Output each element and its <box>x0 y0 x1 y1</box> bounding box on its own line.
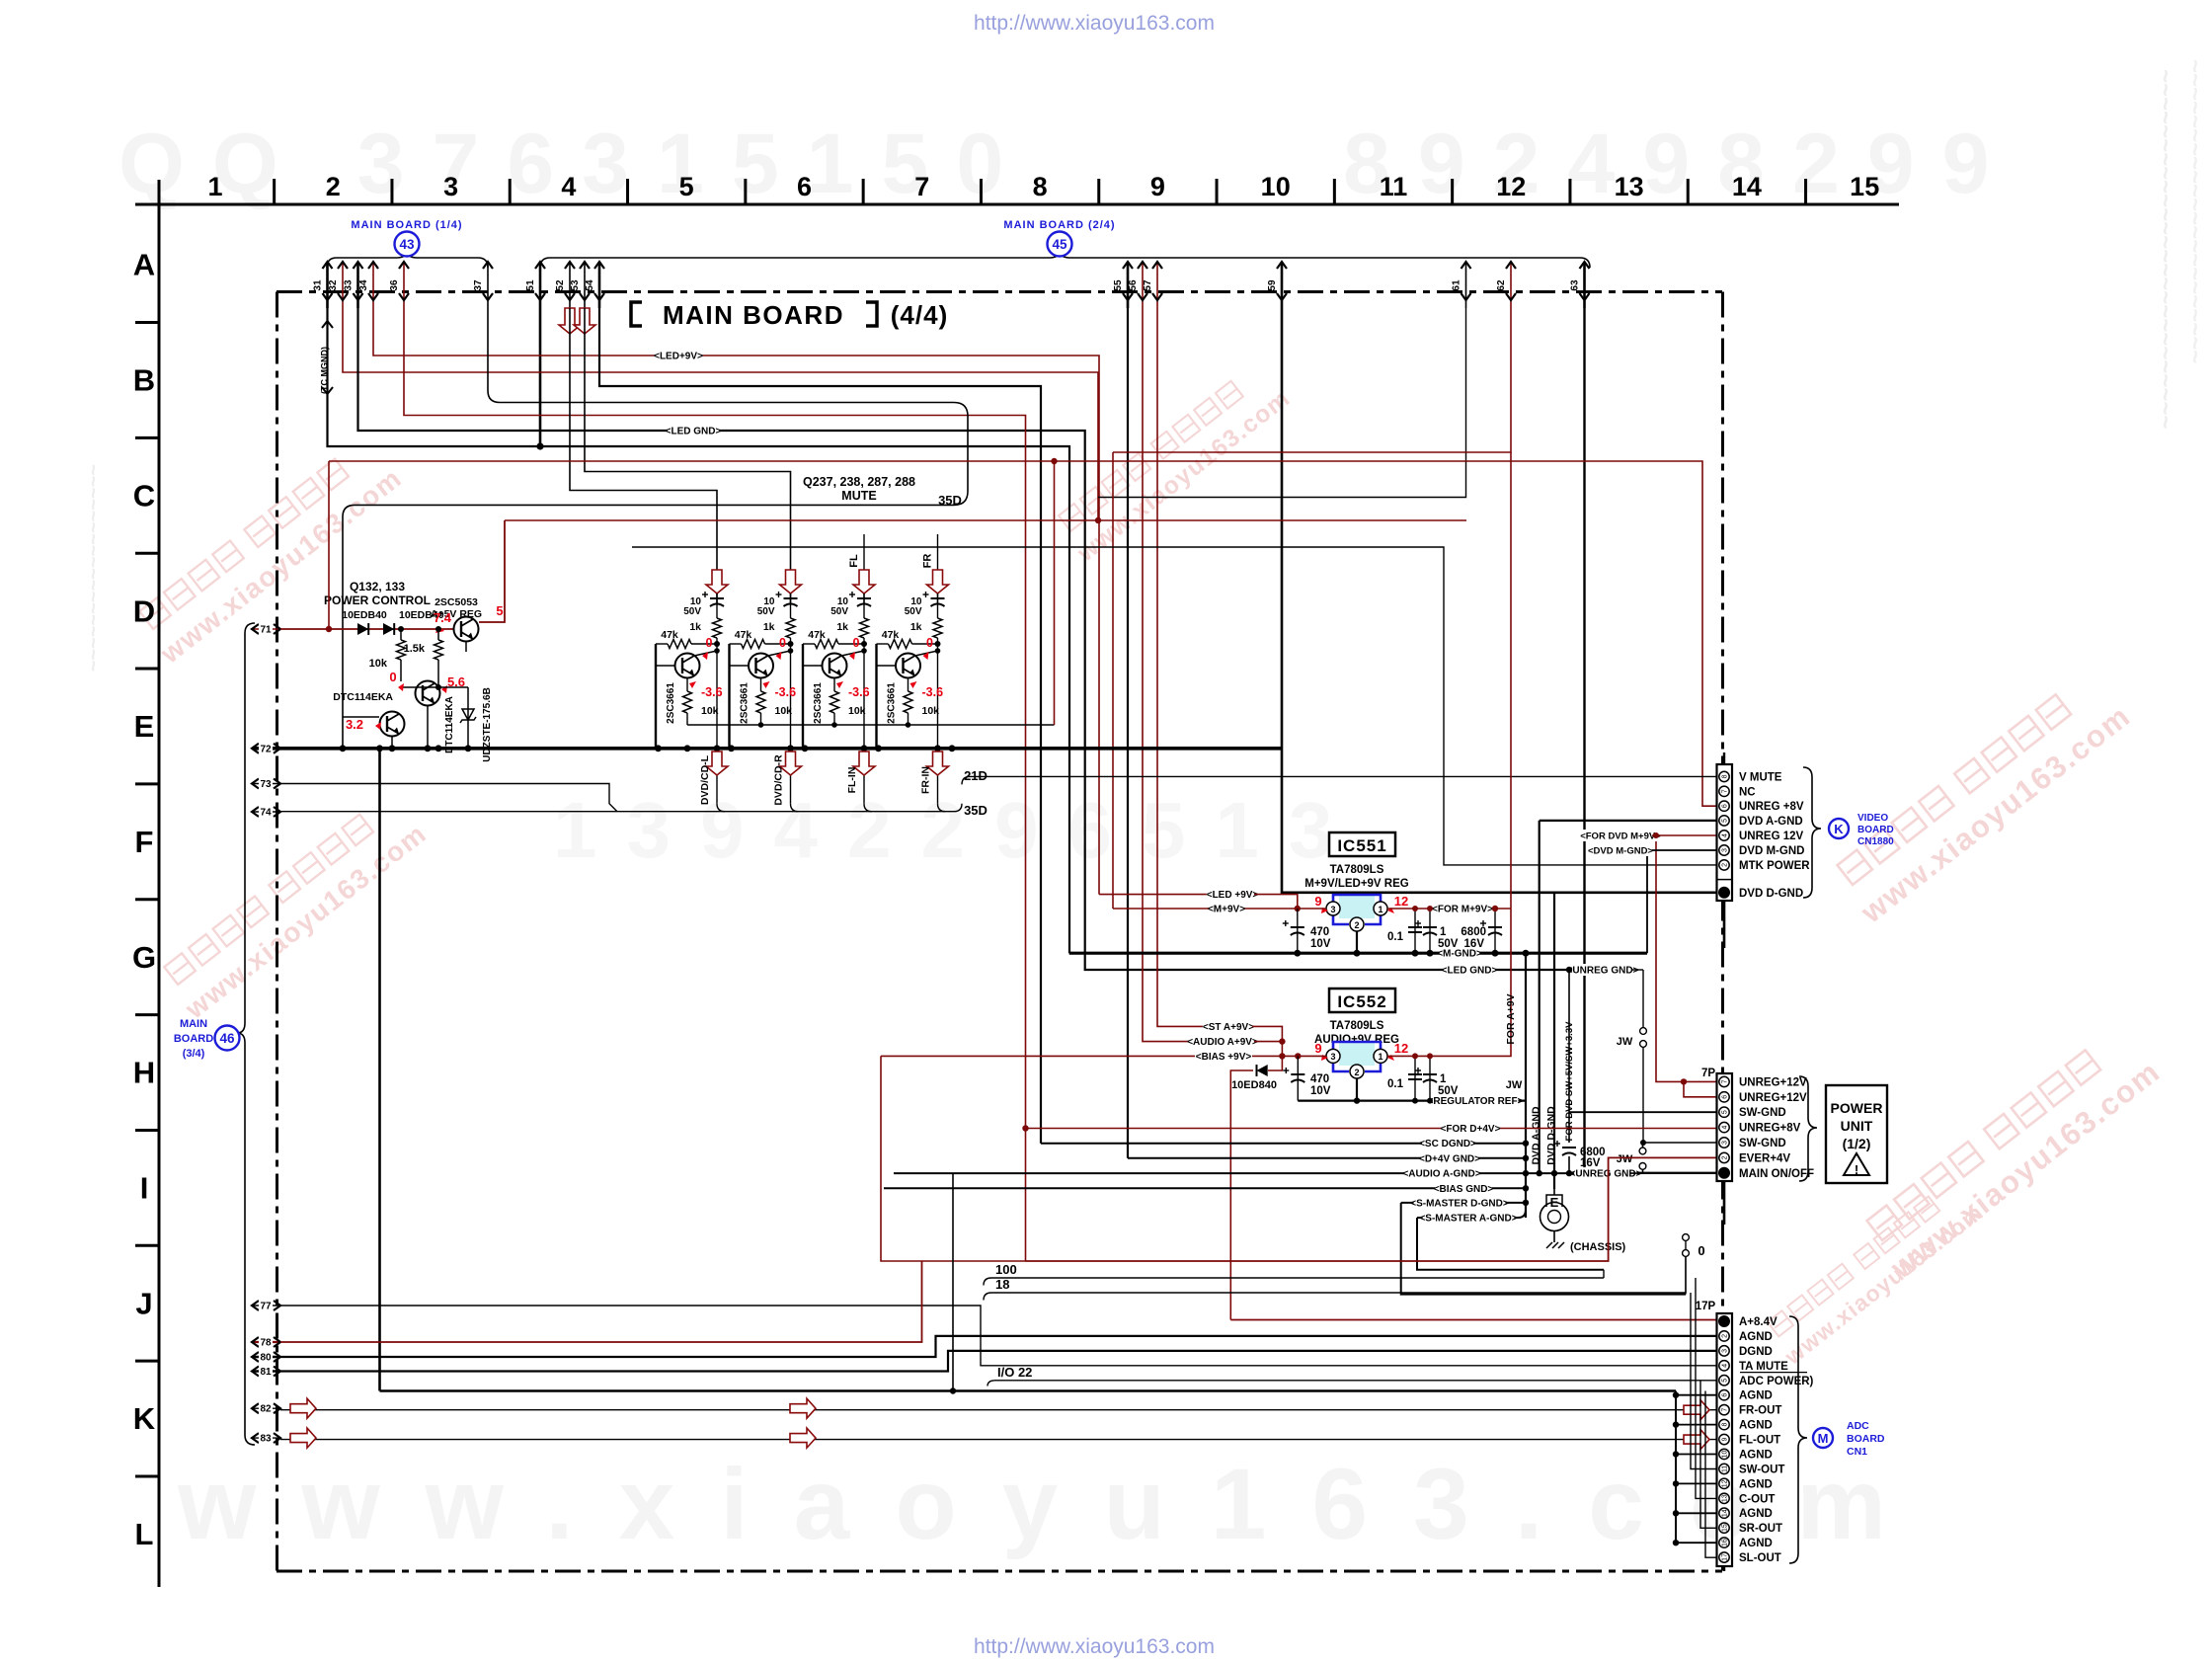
svg-text:2: 2 <box>1722 1155 1729 1159</box>
wire DVD M-GND <box>1646 850 1648 953</box>
svg-text:TA7809LS: TA7809LS <box>1330 864 1384 876</box>
svg-text:E: E <box>134 709 155 744</box>
svg-text:JW: JW <box>1506 1079 1523 1091</box>
svg-text:7P: 7P <box>1701 1068 1715 1079</box>
svg-text:<SC DGND>: <SC DGND> <box>1419 1139 1476 1149</box>
pin 71 left <box>253 628 280 630</box>
svg-text:0: 0 <box>853 636 860 650</box>
wire I/O 22 ADC POWER <box>987 1381 1717 1386</box>
svg-text:~~~~~~~~~~~~~~~~~~~~~~: ~~~~~~~~~~~~~~~~~~~~~~ <box>2181 59 2208 363</box>
red arrow top DVD/CD-L <box>706 570 728 594</box>
svg-text:10k: 10k <box>922 705 940 717</box>
wire pin53 to mute2 <box>585 308 791 603</box>
svg-text:3: 3 <box>1330 1052 1335 1062</box>
wire FOR D+4V red <box>1026 1128 1717 1130</box>
junction M+9V <box>1295 906 1301 911</box>
wire FOR M+9V <box>1387 908 1511 910</box>
svg-text:FR-OUT: FR-OUT <box>1739 1405 1781 1417</box>
svg-text:1.5k: 1.5k <box>404 643 426 655</box>
svg-text:470: 470 <box>1310 926 1329 938</box>
pin 53 top <box>584 263 586 308</box>
svg-text:FL-OUT: FL-OUT <box>1739 1435 1780 1447</box>
board border left dash-dot <box>276 292 278 1572</box>
watermark pink diagonal left lower <box>164 815 373 985</box>
svg-text:<ST A+9V>: <ST A+9V> <box>1203 1022 1254 1033</box>
svg-text:50V: 50V <box>905 606 922 617</box>
junction 1112 on 527 <box>1095 517 1101 523</box>
svg-text:14: 14 <box>1722 1509 1729 1517</box>
sheet circle 43 <box>395 232 420 257</box>
pin 51 top <box>539 263 542 308</box>
wire red bias drop 892 <box>881 1056 1026 1261</box>
svg-text:5: 5 <box>1722 1379 1729 1383</box>
svg-text:32: 32 <box>328 279 339 291</box>
svg-text:8: 8 <box>1033 172 1048 201</box>
wire AGND chain vertical <box>1675 1391 1677 1544</box>
svg-text:50V: 50V <box>683 606 701 617</box>
net label LED +9V <box>1099 894 1254 896</box>
svg-text:L: L <box>135 1517 154 1551</box>
svg-text:NC: NC <box>1739 786 1756 798</box>
svg-text:UNIT: UNIT <box>1841 1118 1873 1134</box>
svg-text:6: 6 <box>1722 1393 1729 1397</box>
brace power unit <box>1799 1076 1817 1181</box>
net label BIAS +9V <box>881 1055 1326 1057</box>
wire FL-OUT <box>280 1439 1717 1441</box>
red arrow top DVD/CD-R <box>780 570 802 594</box>
svg-text:1: 1 <box>1378 1052 1382 1062</box>
resistor 47k DVD/CD-R <box>730 643 742 645</box>
svg-text:MUTE: MUTE <box>841 489 876 503</box>
mute base bus <box>687 724 1055 726</box>
wire pin33 LED GND run <box>358 308 1632 970</box>
svg-text:AGND: AGND <box>1739 1390 1773 1402</box>
svg-text:MAIN: MAIN <box>180 1018 207 1030</box>
wire C-OUT feed <box>1696 1278 1717 1498</box>
jumper 0 chain <box>1685 1233 1687 1293</box>
resistor 47k FR-IN <box>877 643 889 645</box>
svg-text:IC552: IC552 <box>1337 992 1386 1011</box>
svg-text:80: 80 <box>260 1353 272 1364</box>
svg-text:47k: 47k <box>882 629 900 641</box>
transistor 2SC3661 DVD/CD-L <box>675 654 700 678</box>
svg-text:7: 7 <box>1722 1408 1729 1412</box>
pin 52 top <box>569 263 571 308</box>
svg-text:10V: 10V <box>1310 938 1331 950</box>
sheet circle 46 <box>215 1026 240 1051</box>
svg-text:MAIN BOARD: MAIN BOARD <box>663 300 844 330</box>
wire 78 red A+8.4V riser <box>280 1261 922 1342</box>
IC551 pin2 ground <box>1356 931 1358 953</box>
svg-text:47k: 47k <box>735 629 752 641</box>
svg-text:1: 1 <box>1378 905 1382 914</box>
red arrow FL-OUT left <box>290 1428 316 1448</box>
pin 61 top <box>1465 263 1467 308</box>
svg-text:13: 13 <box>1722 1494 1729 1502</box>
pin 63 top <box>1583 263 1586 308</box>
svg-text:B: B <box>133 363 155 398</box>
svg-text:DTC114EKA: DTC114EKA <box>444 696 455 753</box>
svg-text:POWER CONTROL: POWER CONTROL <box>324 594 431 607</box>
svg-text:DTC114EKA: DTC114EKA <box>333 691 393 703</box>
svg-text:-3.6: -3.6 <box>701 685 723 699</box>
sheet circle K video board <box>1829 819 1849 838</box>
junction base 2SC5053 <box>435 626 441 632</box>
diode D1 10EDB40 <box>357 623 368 635</box>
wire pin62 red to M+9V riser <box>1113 308 1511 452</box>
left rail FL-IN <box>802 644 804 749</box>
svg-text:4: 4 <box>1722 833 1729 837</box>
svg-text:82: 82 <box>260 1404 272 1415</box>
svg-text:UNREG+12V: UNREG+12V <box>1739 1076 1807 1088</box>
svg-text:0: 0 <box>706 636 713 650</box>
svg-text:9: 9 <box>1722 1437 1729 1441</box>
wire EVER+4V red <box>1026 1157 1720 1261</box>
red arrow FR-OUT left <box>290 1398 316 1418</box>
svg-text:UNREG+8V: UNREG+8V <box>1739 1123 1801 1135</box>
svg-text:21D: 21D <box>964 768 987 783</box>
svg-text:892498299: 892498299 <box>1343 117 2016 211</box>
svg-text:8: 8 <box>1722 774 1729 778</box>
net label UNREG GND row G <box>1571 964 1634 976</box>
svg-text:0.1: 0.1 <box>1387 1078 1404 1090</box>
diode D2 10EDB40 <box>383 623 394 635</box>
wire UNREG+12V red <box>1656 835 1719 1081</box>
wire node 5.6 cross <box>401 686 468 688</box>
svg-text:5: 5 <box>1722 819 1729 823</box>
capacitor 470/10V IC552 <box>1297 1056 1299 1100</box>
svg-text:http://www.xiaoyu163.com: http://www.xiaoyu163.com <box>974 12 1215 35</box>
chassis ground symbol E <box>1553 1189 1555 1195</box>
svg-text:JW: JW <box>1617 1153 1633 1165</box>
svg-text:http://www.xiaoyu163.com: http://www.xiaoyu163.com <box>974 1635 1215 1658</box>
svg-text:<S-MASTER D-GND>: <S-MASTER D-GND> <box>1410 1198 1509 1209</box>
red arrow bottom FL-IN <box>863 749 865 804</box>
svg-text:2: 2 <box>1354 920 1359 930</box>
svg-text:12: 12 <box>1394 1041 1408 1056</box>
svg-text:7: 7 <box>1722 789 1729 793</box>
net label LED GND right <box>1444 964 1495 976</box>
svg-text:4: 4 <box>1722 1126 1729 1130</box>
mute circuit Q2 (DVD/CD-R) <box>730 570 802 812</box>
wire pin63 to MAIN ON/OFF <box>1585 308 1717 1173</box>
svg-text:D: D <box>133 594 155 628</box>
svg-text:<DVD M-GND>: <DVD M-GND> <box>1588 846 1653 857</box>
wire SW-OUT feed <box>1691 1293 1717 1469</box>
svg-text:DVD D-GND: DVD D-GND <box>1739 888 1803 900</box>
bus M-GND <box>1069 952 1647 955</box>
svg-text:!: ! <box>1855 1162 1858 1177</box>
red arrow FR-OUT right <box>1684 1400 1709 1420</box>
svg-text:6: 6 <box>1722 804 1729 808</box>
pin 83 left <box>253 1437 280 1439</box>
svg-text:ADC: ADC <box>1847 1420 1869 1432</box>
svg-text:10k: 10k <box>701 705 719 717</box>
svg-text:2: 2 <box>1354 1068 1359 1077</box>
wire BIAS GND <box>884 1187 1526 1189</box>
svg-text:1k: 1k <box>836 621 848 633</box>
wire UNREG GND to 982 line <box>1631 969 1643 971</box>
jumper JW right <box>1642 970 1644 1027</box>
svg-text:14: 14 <box>1732 172 1762 201</box>
svg-text:74: 74 <box>260 808 272 819</box>
svg-text:UDZSTE-175.6B: UDZSTE-175.6B <box>482 687 493 762</box>
svg-text:62: 62 <box>1496 279 1507 291</box>
svg-text:1k: 1k <box>763 621 775 633</box>
wire emitter drops <box>427 706 429 749</box>
watermark pink diagonal bottom right <box>1768 1196 1939 1336</box>
wire base feed lower <box>343 716 379 718</box>
svg-text:1: 1 <box>1440 1073 1447 1085</box>
wire 21D to V MUTE <box>962 776 1717 784</box>
svg-text:10V: 10V <box>1310 1085 1331 1097</box>
svg-text:7.4: 7.4 <box>434 610 452 625</box>
svg-text:6: 6 <box>797 172 812 201</box>
capacitor 470/10V IC551 <box>1297 909 1299 953</box>
board border top dash-dot <box>276 290 1722 293</box>
svg-text:<AUDIO A-GND>: <AUDIO A-GND> <box>1402 1169 1480 1180</box>
bus 72 row E thick <box>280 747 1282 751</box>
wire M+9V riser x1127 <box>1112 452 1114 909</box>
svg-text:10: 10 <box>1722 1450 1729 1458</box>
svg-text:8: 8 <box>1722 1423 1729 1427</box>
IC551 pin2 <box>1350 917 1364 931</box>
ruler top line <box>135 203 1899 206</box>
svg-text:3: 3 <box>1722 848 1729 852</box>
svg-text:10k: 10k <box>848 705 866 717</box>
svg-text:83: 83 <box>260 1434 272 1445</box>
wire A+8.4V red <box>1230 1319 1716 1321</box>
svg-text:0: 0 <box>779 636 786 650</box>
IC551 pin1 <box>1374 902 1387 915</box>
svg-text:<AUDIO A+9V>: <AUDIO A+9V> <box>1187 1037 1258 1048</box>
wire SW-GND 1 power <box>1569 1111 1719 1113</box>
svg-text:I/O 22: I/O 22 <box>997 1365 1032 1380</box>
brace main board 2/4 group 45 <box>540 249 1590 268</box>
svg-text:73: 73 <box>260 779 272 790</box>
svg-text:15: 15 <box>1722 1524 1729 1532</box>
pin 73 left <box>253 783 280 785</box>
red arrow FL-OUT right <box>1684 1430 1709 1450</box>
svg-text:ADC POWER): ADC POWER) <box>1739 1376 1814 1387</box>
svg-text:10k: 10k <box>775 705 793 717</box>
wire 72 drop to bottom <box>378 749 381 1391</box>
svg-text:52: 52 <box>555 279 566 291</box>
red arrow bottom DVD/CD-L <box>716 749 718 804</box>
svg-text:www.xiaoyu163.com: www.xiaoyu163.com <box>177 1448 1932 1560</box>
svg-text:51: 51 <box>525 279 536 291</box>
brace main board 3/4 group 46 <box>237 623 255 1445</box>
IC551 regulator body <box>1339 895 1375 918</box>
svg-text:54: 54 <box>585 279 595 291</box>
jumper JW unreg gnd <box>1639 1163 1646 1170</box>
svg-text:11: 11 <box>1722 1465 1729 1472</box>
svg-text:(3/4): (3/4) <box>183 1048 205 1060</box>
left rail DVD/CD-R <box>728 644 730 749</box>
pin 80 left <box>253 1356 280 1358</box>
svg-text:2SC3661: 2SC3661 <box>887 682 898 724</box>
svg-text:JW: JW <box>1617 1036 1633 1048</box>
svg-text:-3.6: -3.6 <box>922 685 944 699</box>
wire FOR A+9V red vertical <box>1387 452 1511 1056</box>
resistor 1k FR-IN <box>933 618 942 638</box>
svg-text:C-OUT: C-OUT <box>1739 1493 1775 1505</box>
svg-text:SW-OUT: SW-OUT <box>1739 1464 1784 1475</box>
svg-text:<FOR M+9V>: <FOR M+9V> <box>1432 905 1493 915</box>
title MAIN BOARD 4/4 <box>631 302 642 326</box>
cap 0.1 IC551 <box>1414 909 1416 953</box>
wire FOR DVD M+9V <box>1582 830 1658 841</box>
board border bottom dash-dot <box>276 1570 1722 1573</box>
wire AUDIO A-GND / UNREG GND <box>894 1172 1581 1174</box>
svg-text:2SC5053: 2SC5053 <box>434 596 478 608</box>
svg-text:<REGULATOR REF>: <REGULATOR REF> <box>1428 1096 1524 1107</box>
wire red row 527 <box>505 519 1466 521</box>
wire SR-OUT feed <box>1700 1381 1717 1529</box>
svg-text:FL: FL <box>848 554 860 568</box>
svg-text:37: 37 <box>473 279 484 291</box>
red arrow below pin 52 <box>559 308 581 334</box>
wire pin55 D+4V GND run <box>1127 308 1129 1158</box>
red arrow top FR-IN <box>927 570 949 594</box>
svg-text:6: 6 <box>1722 1095 1729 1099</box>
svg-text:36: 36 <box>389 279 400 291</box>
svg-text:BOARD: BOARD <box>1857 825 1894 835</box>
red arrow below pin 53 <box>574 308 595 334</box>
svg-text:CN1: CN1 <box>1847 1446 1867 1458</box>
pin 56 top <box>1142 263 1144 308</box>
svg-text:12: 12 <box>1496 172 1526 201</box>
watermark pink diagonal center <box>1059 381 1243 531</box>
svg-text:43: 43 <box>399 237 415 252</box>
svg-text:35D: 35D <box>964 803 987 818</box>
svg-text:9: 9 <box>1150 172 1165 201</box>
svg-text:<UNREG GND>: <UNREG GND> <box>1567 966 1639 977</box>
svg-text:5: 5 <box>496 603 503 618</box>
junction FL-IN <box>861 641 867 647</box>
svg-text:470: 470 <box>1310 1073 1329 1085</box>
svg-text:<S-MASTER A-GND>: <S-MASTER A-GND> <box>1419 1214 1517 1225</box>
svg-text:(4/4): (4/4) <box>891 300 948 330</box>
svg-text:I: I <box>140 1171 149 1206</box>
svg-text:AGND: AGND <box>1739 1538 1773 1549</box>
svg-text:63: 63 <box>1570 279 1581 291</box>
svg-text:13942296513: 13942296513 <box>553 786 1362 874</box>
svg-text:DVD A-GND: DVD A-GND <box>1531 1106 1542 1165</box>
ruler top ticks <box>273 179 276 204</box>
svg-text:100: 100 <box>995 1262 1017 1277</box>
svg-text:TA7809LS: TA7809LS <box>1330 1020 1384 1032</box>
pin 62 top <box>1510 263 1512 308</box>
transistor 2SC3661 FR-IN <box>896 654 920 678</box>
svg-text:A+8.4V: A+8.4V <box>1739 1316 1777 1328</box>
red arrow bottom DVD/CD-R <box>790 749 792 804</box>
ruler left ticks <box>135 321 159 324</box>
svg-text:1: 1 <box>1440 926 1447 938</box>
svg-text:UNREG +8V: UNREG +8V <box>1739 801 1804 813</box>
svg-text:56: 56 <box>1128 279 1139 291</box>
wire pin37 mute loop <box>343 308 968 749</box>
red arrow top FL-IN <box>853 570 875 594</box>
sheet circle 45 <box>1048 232 1072 257</box>
svg-text:<D+4V GND>: <D+4V GND> <box>1419 1153 1480 1164</box>
svg-text:<LED +9V>: <LED +9V> <box>1207 890 1259 901</box>
svg-text:10: 10 <box>1261 172 1291 201</box>
net label ST A+9V <box>1203 1020 1254 1032</box>
left rail DVD/CD-L <box>655 644 657 749</box>
wire S-MASTER D-GND <box>1401 1202 1526 1204</box>
wire DVD A-GND vertical <box>1539 821 1540 1173</box>
svg-text:SL-OUT: SL-OUT <box>1739 1552 1781 1564</box>
capacitor 10/50V DVD/CD-R <box>790 594 792 618</box>
svg-text:9: 9 <box>1314 894 1321 909</box>
svg-text:H: H <box>133 1056 155 1090</box>
cap 0.1 IC552 <box>1414 1056 1416 1100</box>
IC551 pin3 <box>1326 902 1340 915</box>
cap 1/50V IC552 <box>1429 1056 1431 1100</box>
wire DVD D-GND vertical <box>1553 893 1555 1189</box>
IC552 pin3 <box>1326 1049 1340 1063</box>
board border right dash-dot <box>1721 292 1724 1572</box>
junction LED GND <box>1566 967 1572 973</box>
svg-text:IC551: IC551 <box>1337 836 1386 855</box>
svg-text:<BIAS +9V>: <BIAS +9V> <box>1196 1052 1252 1063</box>
resistor 1k DVD/CD-R <box>786 618 795 638</box>
svg-text:9: 9 <box>1314 1041 1321 1056</box>
cap 6800/16V IC551 <box>1494 909 1496 953</box>
svg-text:3: 3 <box>1330 905 1335 914</box>
wire D+4V GND <box>1128 1157 1526 1159</box>
transistor DTC114EKA lower <box>380 712 405 737</box>
svg-text:K: K <box>133 1401 156 1436</box>
resistor 47k FL-IN <box>803 643 815 645</box>
svg-text:MAIN ON/OFF: MAIN ON/OFF <box>1739 1168 1814 1180</box>
svg-text:6800: 6800 <box>1461 926 1486 938</box>
left rail FR-IN <box>875 644 877 749</box>
svg-text:DVD/CD-L: DVD/CD-L <box>699 754 711 805</box>
svg-text:53: 53 <box>570 279 581 291</box>
junction DVD/CD-L <box>714 641 720 647</box>
wire pin31 to node row (TC MGND) <box>328 308 1070 953</box>
svg-text:16: 16 <box>1722 1539 1729 1546</box>
svg-text:<FOR DVD M+9V>: <FOR DVD M+9V> <box>1580 831 1661 842</box>
svg-text:CN1880: CN1880 <box>1857 836 1894 847</box>
svg-text:<M-GND>: <M-GND> <box>1437 949 1482 960</box>
svg-text:V MUTE: V MUTE <box>1739 771 1782 783</box>
resistor 10k DVD/CD-L <box>686 678 688 692</box>
svg-text:3: 3 <box>443 172 458 201</box>
svg-text:FOR DVD SW+5V/SW+3.3V: FOR DVD SW+5V/SW+3.3V <box>1564 1021 1575 1142</box>
watermark pink diagonal left upper <box>139 459 349 629</box>
chassis hatch <box>1546 1242 1552 1248</box>
svg-text:0: 0 <box>926 636 933 650</box>
svg-text:DVD M-GND: DVD M-GND <box>1739 845 1804 857</box>
svg-text:33: 33 <box>344 279 355 291</box>
svg-text:FL-IN: FL-IN <box>846 767 858 794</box>
resistor 10k DVD/CD-R <box>760 678 762 692</box>
wire 73 <box>280 784 617 812</box>
IC552 pin2 <box>1350 1065 1364 1078</box>
capacitor 6800/16V power <box>1562 1147 1576 1148</box>
svg-text:3: 3 <box>1722 1349 1729 1353</box>
mute circuit Q4 (FR-IN) <box>877 534 949 812</box>
pin 59 top <box>1281 263 1284 308</box>
resistor 1k FL-IN <box>860 618 869 638</box>
wire 81 DGND <box>280 1351 1717 1372</box>
junction node 10k <box>398 626 404 632</box>
svg-text:Q132, 133: Q132, 133 <box>350 580 405 594</box>
wire pin51 vertical <box>539 308 542 446</box>
